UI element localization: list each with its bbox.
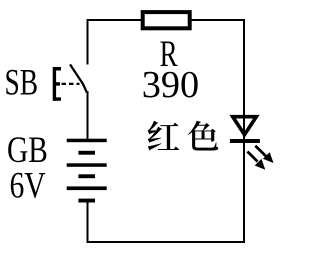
battery GB: plate 5 long xyxy=(67,186,107,190)
label 红 (red - LED colour, drawn as vector glyph) xyxy=(148,121,180,151)
switch SB: actuator dashed link xyxy=(62,83,80,85)
battery GB: plate 2 short xyxy=(78,151,95,155)
battery GB: plate 6 short (bottom) xyxy=(78,199,95,203)
switch SB: push-button cap bracket xyxy=(53,67,61,101)
wire: left vertical from battery bottom to bottom-left corner xyxy=(87,201,89,243)
wire: left vertical from switch bottom contact to battery top xyxy=(87,91,89,140)
resistor R xyxy=(143,12,190,28)
LED D: triangle (anode, pointing down) xyxy=(233,117,257,135)
label 色 (colour - LED colour, drawn as vector glyph) xyxy=(188,121,219,151)
svg-text:SB: SB xyxy=(5,61,39,102)
battery GB: plate 4 short xyxy=(78,174,95,178)
wire: left vertical from top corner down to switch top contact xyxy=(87,19,89,65)
LED D: cathode bar xyxy=(230,139,260,143)
battery GB: plate 3 long xyxy=(67,163,107,167)
svg-text:390: 390 xyxy=(142,64,199,106)
wire: right vertical through LED down to bottom-right corner xyxy=(243,19,245,243)
wire: bottom horizontal xyxy=(87,241,246,243)
svg-text:6V: 6V xyxy=(10,164,46,205)
LED D: light arrow 1 (upper) xyxy=(255,146,273,163)
wire: from resistor right side to top-right corner xyxy=(192,19,246,21)
LED D: light arrow 2 (lower) xyxy=(247,152,265,170)
wire: top-left horizontal from left corner to resistor xyxy=(87,19,142,21)
battery GB: plate 1 long (top) xyxy=(67,139,107,143)
switch SB: blade (moving contact) xyxy=(70,64,87,92)
